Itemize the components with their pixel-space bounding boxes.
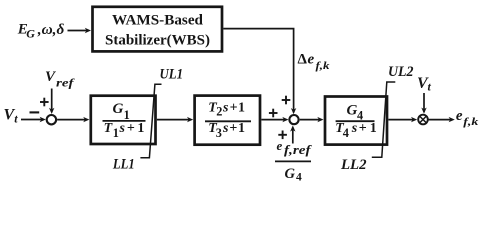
plus sign at sum1 xyxy=(40,98,49,107)
svg-text:Δ: Δ xyxy=(298,52,308,68)
label e_f,ref over G4 xyxy=(275,138,312,183)
svg-text:+: + xyxy=(359,121,367,136)
svg-text:+: + xyxy=(230,100,238,115)
svg-text:G: G xyxy=(113,101,124,117)
wire V_ref to sum1 xyxy=(49,89,54,115)
wire sum2 to block G4 xyxy=(300,117,324,122)
svg-text:2: 2 xyxy=(216,104,222,118)
svg-text:,ω,δ: ,ω,δ xyxy=(37,22,65,38)
block G1/(T1s+1) xyxy=(91,96,156,144)
svg-text:G: G xyxy=(285,166,296,182)
svg-text:4: 4 xyxy=(296,171,302,183)
svg-text:e: e xyxy=(277,138,283,153)
svg-text:Stabilizer(WBS): Stabilizer(WBS) xyxy=(105,32,210,48)
block (T2s+1)/(T3s+1) xyxy=(195,96,260,145)
svg-text:f,k: f,k xyxy=(316,60,331,72)
svg-text:1: 1 xyxy=(370,121,377,136)
svg-text:G: G xyxy=(347,102,358,118)
input label V_t (right) xyxy=(417,75,432,94)
wire WBS to sum2 (Delta e_f,k feed) xyxy=(223,29,296,115)
wire G4 to multiplier xyxy=(388,117,417,122)
wire lead-lag to sum2 xyxy=(261,117,288,122)
svg-text:UL1: UL1 xyxy=(160,66,184,82)
svg-text:UL2: UL2 xyxy=(388,64,414,80)
svg-text:s: s xyxy=(351,121,358,136)
input label V_ref xyxy=(45,69,75,89)
label UL1 xyxy=(160,66,184,82)
wire e_f,ref/G4 up into sum2 xyxy=(290,125,295,143)
svg-text:f,ref: f,ref xyxy=(284,142,312,157)
label UL2 xyxy=(388,64,414,80)
block G4/(T4s+1) xyxy=(325,97,387,145)
node label Delta e_f,k xyxy=(298,52,331,73)
svg-text:1: 1 xyxy=(238,121,245,136)
plus sign (top) at sum2 xyxy=(282,96,291,105)
svg-text:e: e xyxy=(308,52,315,68)
saturation limit SAT1 xyxy=(140,84,161,157)
svg-text:1: 1 xyxy=(238,100,245,115)
svg-text:LL1: LL1 xyxy=(112,157,135,173)
svg-text:G: G xyxy=(26,27,35,41)
minus sign at sum1 xyxy=(30,111,40,113)
wire V_t to multiplier xyxy=(421,93,426,114)
svg-text:+: + xyxy=(229,121,237,136)
summing junction sum1 xyxy=(47,115,56,124)
multiplier junction (circle with X) xyxy=(418,115,428,125)
input label E_G,omega,delta xyxy=(17,22,65,41)
block WBS (WAMS-Based Stabilizer) xyxy=(93,7,223,52)
plus sign (left) at sum2 xyxy=(269,109,278,118)
svg-text:LL2: LL2 xyxy=(340,157,367,173)
svg-text:s: s xyxy=(222,121,229,136)
svg-text:4: 4 xyxy=(343,126,349,140)
plus sign (bottom) at sum2 xyxy=(278,131,287,140)
svg-text:ref: ref xyxy=(56,75,75,89)
summing junction sum2 xyxy=(289,115,298,124)
svg-text:f,k: f,k xyxy=(463,116,479,128)
svg-text:3: 3 xyxy=(216,126,222,140)
svg-text:1: 1 xyxy=(124,108,130,122)
svg-text:+: + xyxy=(127,121,135,136)
wire E input arrow into WBS xyxy=(68,28,92,33)
output label e_f,k xyxy=(456,108,479,128)
label LL2 xyxy=(340,157,367,173)
output wire e_f,k xyxy=(428,117,454,122)
wire G1 to lead-lag block xyxy=(157,117,193,122)
wire sum1 to block G1 xyxy=(57,117,89,122)
svg-text:e: e xyxy=(456,108,463,124)
wire V_t to sum1 xyxy=(21,117,46,122)
svg-text:s: s xyxy=(119,121,126,136)
saturation limit SAT2 xyxy=(372,82,396,157)
input label V_t (left) xyxy=(4,107,19,126)
svg-text:1: 1 xyxy=(113,126,119,140)
svg-text:s: s xyxy=(222,100,229,115)
svg-text:1: 1 xyxy=(137,121,144,136)
label LL1 xyxy=(112,157,135,173)
svg-text:WAMS-Based: WAMS-Based xyxy=(112,12,204,28)
